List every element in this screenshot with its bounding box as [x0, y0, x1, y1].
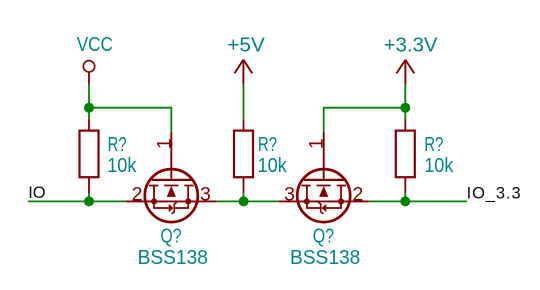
svg-text:10k: 10k: [424, 154, 454, 177]
power symbol VCC pin: [88, 72, 90, 84]
transistor Q1 gate bar: [152, 179, 192, 181]
transistor Q2 body diode cathode: [318, 202, 323, 214]
transistor Q1 pin 3: [197, 200, 216, 202]
resistor R2 top pin: [243, 120, 245, 132]
transistor Q2 pin 2: [350, 200, 369, 202]
transistor Q1 body diode cathode: [172, 202, 177, 214]
transistor Q1 source junction dot: [151, 198, 157, 204]
wire IO rail left segment: [28, 200, 126, 202]
transistor Q1 body diode path: [154, 201, 188, 208]
svg-text:10k: 10k: [258, 154, 288, 177]
svg-text:BSS138: BSS138: [290, 246, 360, 269]
transistor Q2 bulk arrow: [319, 186, 328, 197]
power symbol +5V arrow: [235, 60, 253, 74]
transistor Q1 bulk arrow: [167, 186, 176, 197]
wire VCC junction to Q1 gate: [89, 108, 171, 132]
transistor Q1 body diode triangle: [169, 204, 174, 212]
resistor R2 body: [234, 131, 253, 178]
svg-text:R?: R?: [258, 133, 277, 156]
power symbol +5V pin: [242, 60, 244, 85]
wire VCC junction down to R1: [88, 108, 90, 120]
wire R3 to rail: [404, 193, 406, 201]
power symbol VCC circle: [83, 61, 94, 72]
svg-text:2: 2: [132, 183, 143, 205]
transistor Q2 body diode triangle: [321, 204, 326, 212]
junction +3.3V node: [400, 103, 410, 113]
transistor Q2 source leg: [340, 186, 342, 202]
transistor Q1 source leg: [153, 186, 155, 202]
resistor R3 bottom pin: [404, 177, 406, 193]
transistor Q1 drain junction dot: [185, 198, 191, 204]
transistor Q2 drain leg: [306, 186, 308, 202]
svg-text:VCC: VCC: [77, 33, 113, 56]
svg-text:3: 3: [284, 183, 295, 205]
transistor Q1 body circle: [145, 169, 198, 222]
transistor Q2 pin 3: [279, 200, 298, 202]
svg-text:R?: R?: [108, 133, 127, 156]
power symbol +3.3V pin: [404, 60, 406, 85]
wire +3.3V to junction: [404, 85, 406, 108]
svg-text:BSS138: BSS138: [138, 246, 208, 269]
svg-text:+5V: +5V: [227, 33, 265, 56]
svg-text:1: 1: [154, 138, 175, 149]
resistor R3 body: [396, 131, 415, 178]
wire +5V to R2: [243, 85, 245, 120]
transistor Q1 channel segments: [149, 185, 194, 187]
wire VCC to junction: [88, 85, 90, 108]
transistor Q1 drain leg: [187, 186, 189, 202]
resistor R1 bottom pin: [88, 177, 90, 193]
wire R1 to rail: [88, 193, 90, 201]
wire R2 to rail: [243, 193, 245, 201]
transistor Q1 pin 2: [126, 200, 145, 202]
svg-text:3: 3: [200, 183, 211, 205]
resistor R2 bottom pin: [243, 177, 245, 193]
resistor R3 top pin: [404, 120, 406, 132]
svg-text:R?: R?: [424, 133, 443, 156]
svg-text:IO: IO: [28, 184, 46, 202]
wire +3.3V junction to Q2 gate: [324, 108, 406, 132]
junction rail R2: [239, 196, 249, 206]
transistor Q2 body circle: [297, 169, 350, 222]
transistor Q2 gate pin: [323, 132, 325, 179]
transistor Q2 interior S-D line: [298, 200, 350, 202]
power symbol +3.3V arrow: [397, 60, 415, 74]
wire rail segment Q1-R2: [217, 200, 279, 202]
resistor R1 top pin: [88, 120, 90, 132]
transistor Q1 gate pin: [170, 132, 172, 179]
transistor Q2 body diode path: [307, 201, 341, 208]
svg-text:Q?: Q?: [160, 225, 181, 248]
transistor Q2 drain junction dot: [304, 198, 310, 204]
transistor Q2 gate bar: [304, 179, 344, 181]
svg-text:IO_3.3: IO_3.3: [467, 184, 522, 202]
junction rail R1: [84, 196, 94, 206]
junction VCC node: [84, 103, 94, 113]
svg-text:2: 2: [352, 183, 363, 205]
transistor Q2 channel segments: [301, 185, 346, 187]
svg-text:1: 1: [307, 138, 328, 149]
transistor Q2 source junction dot: [338, 198, 344, 204]
junction rail R3: [400, 196, 410, 206]
transistor Q1 interior S-D line: [145, 200, 197, 202]
svg-text:Q?: Q?: [313, 225, 334, 248]
svg-text:10k: 10k: [107, 154, 137, 177]
wire +3.3V junction down to R3: [404, 108, 406, 120]
svg-text:+3.3V: +3.3V: [384, 33, 438, 56]
resistor R1 body: [80, 131, 99, 178]
wire rail segment Q2-R3: [369, 200, 467, 202]
